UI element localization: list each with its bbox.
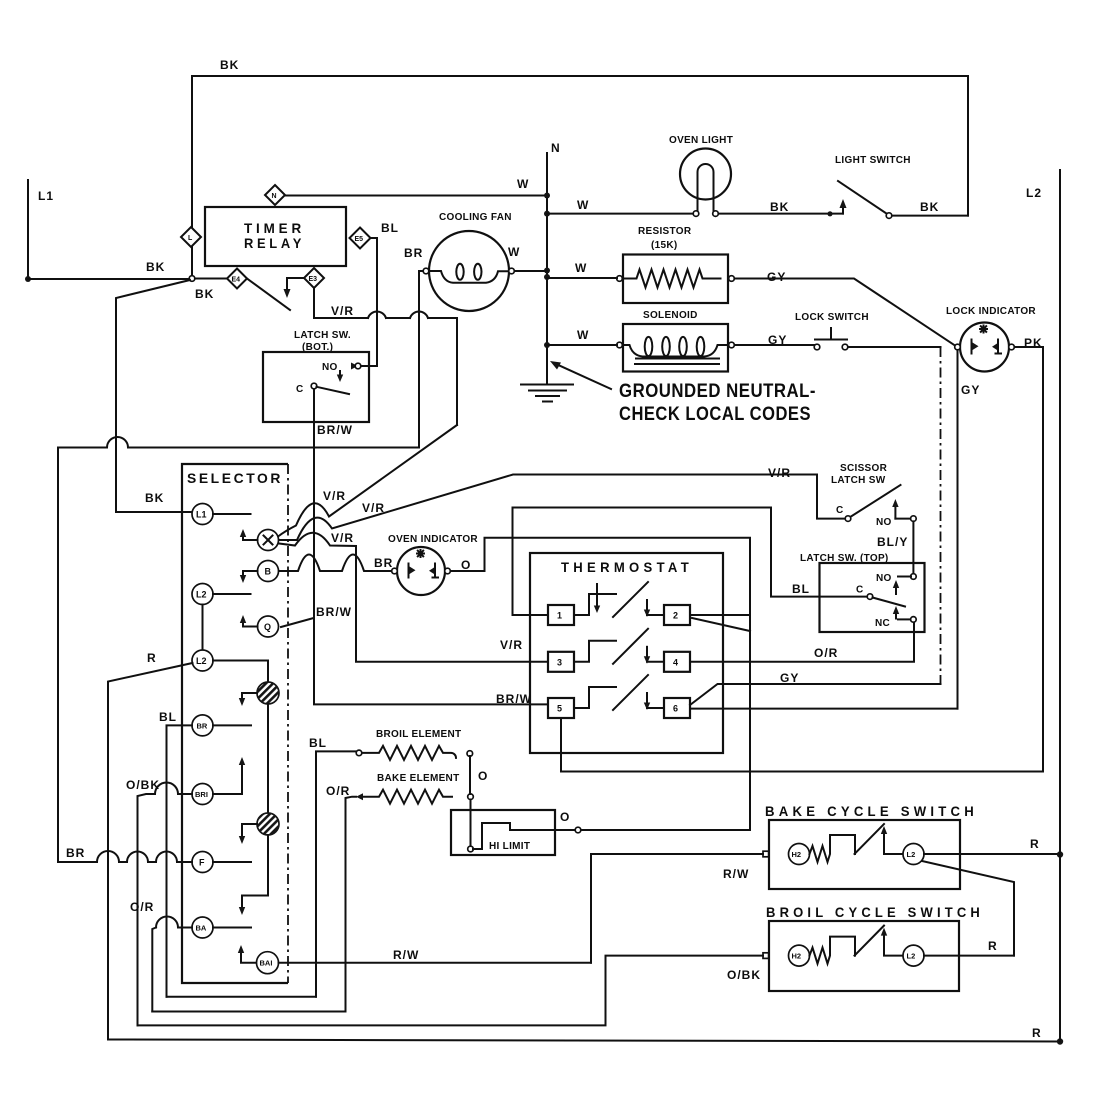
bake element <box>326 773 473 804</box>
svg-text:BROIL ELEMENT: BROIL ELEMENT <box>376 729 461 740</box>
wire bake L2 R to right rail <box>924 837 1063 858</box>
wire BL to broil element <box>316 751 356 996</box>
solenoid <box>617 310 735 372</box>
wire resistor GY to lock indicator <box>735 270 956 346</box>
svg-text:R/W: R/W <box>723 867 749 881</box>
svg-text:GY: GY <box>767 270 786 284</box>
svg-text:5: 5 <box>557 704 562 714</box>
wire solenoid GY to lock switch <box>735 333 815 347</box>
label grounded neutral note <box>619 380 816 425</box>
thermostat terminal 6 <box>664 698 690 718</box>
wire R bottom return <box>108 1026 1063 1045</box>
svg-text:BK: BK <box>145 491 164 505</box>
thermostat contact 5-6 <box>574 675 664 710</box>
broil element <box>309 729 473 760</box>
lock indicator <box>946 306 1036 372</box>
svg-text:L2: L2 <box>907 850 916 859</box>
terminal E3 diamond <box>304 268 324 288</box>
bake cycle switch <box>763 803 978 889</box>
svg-text:LATCH SW: LATCH SW <box>831 475 886 486</box>
svg-text:BR/W: BR/W <box>496 692 532 706</box>
svg-text:HI LIMIT: HI LIMIT <box>489 841 530 852</box>
svg-text:NC: NC <box>875 618 890 629</box>
wire L1 to BK node <box>28 278 189 280</box>
wire broil L2 R <box>924 939 1014 956</box>
wire R/W to bake H2 <box>591 854 763 963</box>
wire W to resistor <box>547 261 617 278</box>
svg-text:E5: E5 <box>355 236 364 243</box>
wire W to solenoid <box>547 328 617 345</box>
svg-text:BK: BK <box>220 58 239 72</box>
oven indicator <box>388 534 478 595</box>
wire hi limit O to O vertical <box>581 829 750 831</box>
svg-text:W: W <box>577 198 589 212</box>
svg-text:L2: L2 <box>907 952 916 961</box>
svg-text:BRI: BRI <box>195 790 208 799</box>
svg-text:BAKE ELEMENT: BAKE ELEMENT <box>377 773 460 784</box>
svg-text:2: 2 <box>673 611 678 621</box>
wire oven light to light switch BK <box>719 200 844 216</box>
svg-text:C: C <box>836 505 844 516</box>
svg-text:LATCH SW.: LATCH SW. <box>294 330 351 341</box>
selector contact F <box>192 852 251 873</box>
wire O/R to bake element <box>346 797 357 1012</box>
svg-text:BR: BR <box>374 556 393 570</box>
svg-text:RELAY: RELAY <box>244 235 305 251</box>
svg-text:LOCK INDICATOR: LOCK INDICATOR <box>946 306 1036 317</box>
terminal N diamond <box>265 185 285 205</box>
svg-text:GROUNDED NEUTRAL-: GROUNDED NEUTRAL- <box>619 380 816 402</box>
svg-text:O/R: O/R <box>326 784 350 798</box>
wire thermostat 1 to latch sw top C BL <box>513 508 867 616</box>
svg-text:CHECK LOCAL CODES: CHECK LOCAL CODES <box>619 403 811 425</box>
node BK junction <box>146 260 214 301</box>
svg-text:L2: L2 <box>1026 186 1042 200</box>
svg-text:NO: NO <box>322 362 338 373</box>
wire lamp M2 arm down <box>239 835 268 915</box>
svg-text:SELECTOR: SELECTOR <box>187 470 283 486</box>
wire BR/W tap to selector Q <box>281 618 314 627</box>
svg-text:BL: BL <box>309 736 327 750</box>
svg-text:3: 3 <box>557 657 562 667</box>
wire BRI O/BK down <box>126 778 192 1025</box>
selector terminal L2 lower R <box>147 650 213 671</box>
svg-text:W: W <box>508 245 520 259</box>
svg-text:RESISTOR: RESISTOR <box>638 226 692 237</box>
wire BR wavy to F <box>58 846 192 862</box>
svg-text:6: 6 <box>673 704 678 714</box>
svg-text:R: R <box>1032 1026 1042 1040</box>
selector terminal L2 <box>192 584 251 651</box>
broil cycle switch <box>763 904 984 991</box>
wire O/R bottom return <box>152 1011 345 1013</box>
svg-text:BR/W: BR/W <box>316 605 352 619</box>
svg-text:BK: BK <box>770 200 789 214</box>
wire light switch to L2 drop BK <box>892 200 968 216</box>
svg-text:Q: Q <box>264 622 271 632</box>
selector <box>182 464 288 983</box>
svg-text:L2: L2 <box>196 590 207 600</box>
svg-text:1: 1 <box>557 611 562 621</box>
wire lamp M1 to lamp M2 <box>267 704 269 813</box>
thermostat terminal 5 <box>548 698 574 718</box>
timer relay U1 <box>205 207 346 266</box>
hi limit <box>451 810 581 855</box>
thermostat contact 1-2 <box>574 582 664 617</box>
svg-text:OVEN INDICATOR: OVEN INDICATOR <box>388 534 478 545</box>
svg-text:BAI: BAI <box>260 959 273 968</box>
svg-text:E3: E3 <box>309 276 318 283</box>
selector contact B <box>240 561 279 584</box>
wire element O junction <box>470 756 488 846</box>
ground callout arrow <box>550 361 611 389</box>
svg-text:BL: BL <box>792 582 810 596</box>
thermostat <box>530 553 723 753</box>
svg-text:V/R: V/R <box>331 531 354 545</box>
svg-text:BROIL CYCLE SWITCH: BROIL CYCLE SWITCH <box>766 904 984 920</box>
svg-text:L1: L1 <box>38 189 54 203</box>
svg-text:NO: NO <box>876 517 892 528</box>
wire thermostat 2 to O vertical <box>690 614 750 616</box>
lock switch <box>795 312 869 350</box>
thermostat terminal 2 <box>664 605 690 625</box>
selector terminal BAI <box>257 952 279 974</box>
wire selector X V/R to thermostat 3 <box>279 531 548 662</box>
svg-text:E4: E4 <box>232 277 241 284</box>
svg-text:O/BK: O/BK <box>727 968 761 982</box>
svg-text:L1: L1 <box>196 510 207 520</box>
wire GY drop (dashed) <box>940 347 942 684</box>
wire lock switch to GY drop <box>848 346 941 348</box>
svg-text:L2: L2 <box>196 656 207 666</box>
svg-text:F: F <box>199 858 205 868</box>
node N neutral rail <box>544 141 561 383</box>
wire L2 to motor lamp <box>213 661 268 683</box>
svg-text:GY: GY <box>961 383 980 397</box>
switch blade from E4 <box>247 279 290 311</box>
svg-text:R/W: R/W <box>393 948 419 962</box>
svg-text:W: W <box>517 177 529 191</box>
selector contact BAI arm <box>238 945 255 963</box>
wire E3 V/R to selector X <box>278 288 457 537</box>
wire BK diagonal to selector L1 <box>116 280 192 512</box>
svg-text:O: O <box>560 810 570 824</box>
selector contact BR <box>159 710 251 736</box>
selector terminal L1 <box>192 504 251 525</box>
svg-text:LIGHT SWITCH: LIGHT SWITCH <box>835 155 911 166</box>
wire selector X V/R to scissor latch <box>279 475 845 541</box>
svg-text:BAKE CYCLE SWITCH: BAKE CYCLE SWITCH <box>765 803 978 819</box>
svg-text:BL: BL <box>159 710 177 724</box>
node L1 <box>25 180 54 282</box>
svg-text:SCISSOR: SCISSOR <box>840 463 888 474</box>
thermostat contact 3-4 <box>574 629 664 664</box>
wire BK node to E4 <box>195 278 227 280</box>
svg-text:H2: H2 <box>792 952 802 961</box>
wire fan to neutral W <box>508 245 547 271</box>
svg-text:COOLING FAN: COOLING FAN <box>439 212 512 223</box>
wire L2 R diagonal down-left <box>108 663 193 1040</box>
svg-text:W: W <box>575 261 587 275</box>
wire BR BL down <box>167 725 193 996</box>
svg-text:BK: BK <box>195 287 214 301</box>
terminal L diamond <box>181 227 201 247</box>
svg-text:BK: BK <box>146 260 165 274</box>
svg-text:O/R: O/R <box>814 646 838 660</box>
wire fan BR down-left <box>58 246 423 862</box>
selector lamp M2 (hatched) <box>239 813 279 844</box>
wire scissor NO BL/Y to latch top NO <box>877 521 913 574</box>
svg-text:C: C <box>856 585 864 596</box>
thermostat terminal 3 <box>548 652 574 672</box>
cooling fan <box>423 212 514 311</box>
resistor (15K) <box>617 226 735 303</box>
wire lock indicator GY drop to thermostat 6 <box>958 350 981 709</box>
latch switch (top) <box>800 553 925 632</box>
thermostat terminal 1 <box>548 605 574 625</box>
wire BL bottom return <box>167 996 317 998</box>
wire BK top rail <box>192 58 968 276</box>
node L2 right rail <box>1026 170 1060 1042</box>
svg-text:GY: GY <box>780 671 799 685</box>
wire BA O/R down <box>130 900 192 1012</box>
svg-text:LOCK SWITCH: LOCK SWITCH <box>795 312 869 323</box>
svg-text:OVEN LIGHT: OVEN LIGHT <box>669 135 733 146</box>
wire W to oven light <box>547 198 693 214</box>
svg-text:THERMOSTAT: THERMOSTAT <box>561 559 693 575</box>
scissor latch switch <box>768 463 916 528</box>
wire thermostat 5 to PK net <box>561 718 1043 772</box>
svg-text:BL/Y: BL/Y <box>877 535 908 549</box>
wire BAI R/W <box>279 948 592 963</box>
svg-text:N: N <box>551 141 561 155</box>
svg-text:BR: BR <box>404 246 423 260</box>
svg-text:BR: BR <box>197 722 208 731</box>
svg-text:O: O <box>478 769 488 783</box>
wire thermostat 6 GY to lock indicator <box>690 671 958 709</box>
selector contact BRI <box>192 757 245 805</box>
wire lock indicator PK <box>1015 336 1044 772</box>
svg-text:BR/W: BR/W <box>317 423 353 437</box>
terminal E5 diamond <box>350 228 371 249</box>
wire N diamond to neutral rail W <box>285 177 547 196</box>
wire E5 BL to latch sw bot NO <box>351 221 399 370</box>
svg-text:4: 4 <box>673 657 678 667</box>
thermostat terminal 4 <box>664 652 690 672</box>
svg-text:V/R: V/R <box>331 304 354 318</box>
wire O/BK to broil H2 <box>138 956 764 1026</box>
wire bake L2 to broil R <box>922 861 1014 956</box>
svg-text:R: R <box>988 939 998 953</box>
svg-text:V/R: V/R <box>768 466 791 480</box>
svg-text:BL: BL <box>381 221 399 235</box>
svg-text:TIMER: TIMER <box>244 220 305 236</box>
svg-text:V/R: V/R <box>323 489 346 503</box>
svg-text:BA: BA <box>196 924 207 933</box>
wire latch bot C BR/W down <box>314 389 548 704</box>
selector contact Q <box>240 615 279 637</box>
svg-text:(15K): (15K) <box>651 240 678 251</box>
contact arrow at E3 <box>284 278 305 298</box>
selector contact X <box>240 529 279 551</box>
selector contact BA <box>192 917 251 938</box>
svg-text:BK: BK <box>920 200 939 214</box>
svg-text:R: R <box>147 651 157 665</box>
svg-text:BR: BR <box>66 846 85 860</box>
light switch <box>835 155 911 218</box>
svg-text:NO: NO <box>876 573 892 584</box>
oven light <box>669 135 733 216</box>
terminal E4 diamond <box>227 269 247 289</box>
svg-text:SOLENOID: SOLENOID <box>643 310 698 321</box>
svg-text:O: O <box>461 558 471 572</box>
wire oven indicator O to vertical <box>451 538 751 830</box>
svg-text:H2: H2 <box>792 850 802 859</box>
latch switch (bottom) <box>263 330 369 422</box>
svg-text:W: W <box>577 328 589 342</box>
wire selector B BR to oven indicator <box>279 555 394 572</box>
svg-text:R: R <box>1030 837 1040 851</box>
ground <box>521 385 573 402</box>
svg-text:L: L <box>188 235 193 242</box>
svg-text:O/R: O/R <box>130 900 154 914</box>
selector lamp M1 (hatched) <box>239 682 279 706</box>
wire thermostat 2 diagonal tap <box>692 618 750 631</box>
wire thermostat 4 O/R to latch sw top NC <box>690 623 914 662</box>
svg-text:N: N <box>272 193 277 200</box>
svg-text:B: B <box>265 567 272 577</box>
svg-text:V/R: V/R <box>500 638 523 652</box>
svg-text:C: C <box>296 384 304 395</box>
